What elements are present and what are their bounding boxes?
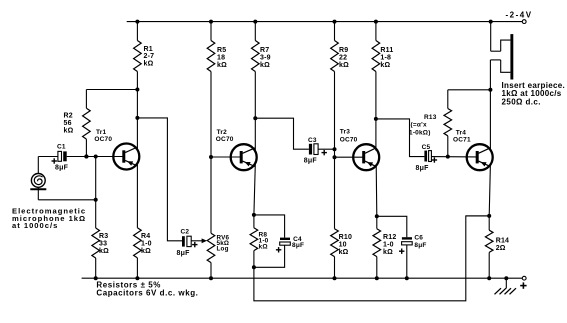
svg-text:C6: C6 — [414, 235, 423, 242]
svg-text:1-0: 1-0 — [141, 240, 152, 247]
svg-text:kΩ: kΩ — [217, 62, 227, 69]
svg-text:Tr2: Tr2 — [217, 129, 228, 136]
svg-text:33: 33 — [99, 240, 107, 247]
svg-text:R13: R13 — [424, 114, 437, 121]
svg-text:R14: R14 — [496, 238, 509, 245]
svg-text:Log: Log — [217, 245, 229, 252]
svg-text:R2: R2 — [64, 113, 73, 120]
svg-text:3-9: 3-9 — [260, 55, 271, 62]
svg-text:C1: C1 — [57, 144, 66, 151]
svg-text:Tr3: Tr3 — [340, 128, 351, 135]
svg-text:250Ω d.c.: 250Ω d.c. — [502, 97, 541, 106]
svg-text:R5: R5 — [217, 47, 226, 54]
svg-text:OC70: OC70 — [94, 136, 112, 143]
svg-text:kΩ: kΩ — [259, 243, 268, 250]
svg-text:R1: R1 — [144, 46, 153, 53]
svg-text:kΩ: kΩ — [144, 61, 154, 68]
svg-text:kΩ: kΩ — [64, 127, 74, 134]
svg-text:kΩ: kΩ — [380, 62, 390, 69]
svg-text:8μF: 8μF — [416, 165, 430, 172]
svg-text:10: 10 — [339, 241, 347, 248]
svg-text:R7: R7 — [260, 47, 269, 54]
svg-text:R10: R10 — [339, 234, 352, 241]
svg-text:kΩ: kΩ — [339, 249, 349, 256]
svg-text:1-0: 1-0 — [383, 241, 394, 248]
svg-text:R4: R4 — [141, 233, 150, 240]
svg-text:1-8: 1-8 — [380, 55, 391, 62]
svg-text:at 1000c/s: at 1000c/s — [12, 221, 58, 230]
svg-text:R3: R3 — [99, 233, 108, 240]
svg-text:kΩ: kΩ — [99, 248, 109, 255]
svg-text:OC71: OC71 — [453, 137, 471, 144]
svg-text:8μF: 8μF — [55, 165, 69, 172]
svg-text:2Ω: 2Ω — [496, 245, 506, 252]
svg-text:OC70: OC70 — [340, 136, 358, 143]
svg-text:kΩ: kΩ — [141, 248, 151, 255]
svg-text:C2: C2 — [181, 228, 190, 235]
svg-text:C3: C3 — [308, 137, 317, 144]
svg-text:C5: C5 — [422, 144, 431, 151]
svg-text:kΩ: kΩ — [339, 62, 349, 69]
svg-text:R11: R11 — [380, 47, 393, 54]
svg-text:8μF: 8μF — [304, 158, 318, 165]
svg-text:(=α’x: (=α’x — [411, 121, 428, 128]
svg-text:18: 18 — [217, 55, 225, 62]
svg-text:kΩ: kΩ — [383, 249, 393, 256]
svg-text:2-7: 2-7 — [144, 53, 155, 60]
svg-text:R12: R12 — [383, 234, 396, 241]
svg-text:kΩ: kΩ — [260, 62, 270, 69]
svg-text:R9: R9 — [339, 47, 348, 54]
svg-text:56: 56 — [64, 120, 72, 127]
svg-text:Tr1: Tr1 — [96, 129, 107, 136]
svg-text:OC70: OC70 — [216, 136, 234, 143]
svg-text:1-0kΩ): 1-0kΩ) — [409, 130, 431, 137]
svg-text:Capacitors 6V d.c. wkg.: Capacitors 6V d.c. wkg. — [96, 288, 198, 297]
svg-text:-2-4V: -2-4V — [506, 10, 533, 19]
svg-text:22: 22 — [339, 55, 347, 62]
svg-text:8μF: 8μF — [414, 242, 426, 249]
svg-text:8μF: 8μF — [177, 250, 191, 257]
svg-text:8μF: 8μF — [292, 242, 304, 249]
svg-text:Tr4: Tr4 — [456, 130, 467, 137]
